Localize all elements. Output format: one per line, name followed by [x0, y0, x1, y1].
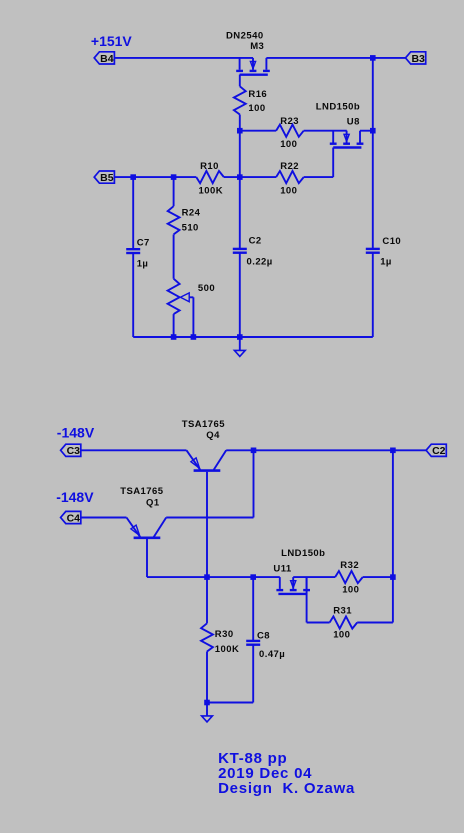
- net label -148V lower: [56, 489, 94, 505]
- comment title KT-88 pp: [218, 750, 287, 767]
- node top-right junction: [370, 55, 376, 61]
- resistor R31: [330, 616, 358, 628]
- node ground junction: [204, 700, 210, 706]
- svg-text:C7: C7: [137, 238, 150, 249]
- wire U8 source to right rail: [360, 130, 373, 132]
- svg-text:Design K. Ozawa: Design K. Ozawa: [218, 780, 355, 797]
- svg-text:0.47µ: 0.47µ: [259, 649, 285, 660]
- svg-text:C3: C3: [67, 445, 81, 457]
- potentiometer 500: [168, 279, 180, 314]
- wire R24 to pot: [173, 235, 175, 279]
- wire Q4-Q1 link: [253, 450, 255, 517]
- wire R32 to right rail: [363, 576, 393, 578]
- label DN2540: [226, 31, 264, 42]
- svg-text:C2: C2: [249, 236, 262, 247]
- svg-text:R31: R31: [333, 606, 352, 617]
- transistor Q4: [187, 450, 227, 470]
- node C8 rail junction: [250, 574, 256, 580]
- label Q4: [206, 430, 220, 441]
- svg-text:R16: R16: [248, 89, 267, 100]
- wire U11 gate down: [306, 578, 308, 623]
- wire M3 gate to R16: [239, 75, 241, 87]
- value 100 of R23: [280, 139, 297, 150]
- label C7: [137, 238, 150, 249]
- svg-text:C4: C4: [67, 512, 81, 524]
- value 0.22u of C2: [247, 256, 273, 267]
- resistor R24: [168, 206, 180, 234]
- port B5: [94, 171, 114, 184]
- wire U11 source to R32: [293, 576, 335, 578]
- label R32: [340, 560, 359, 571]
- value 0.47u of C8: [259, 649, 285, 660]
- port B3: [406, 52, 426, 65]
- wire pot bottom lead: [173, 314, 175, 337]
- value 100 of R22: [280, 186, 297, 197]
- svg-text:-148V: -148V: [56, 489, 94, 505]
- svg-text:M3: M3: [250, 41, 264, 52]
- value 100K of R10: [199, 186, 224, 197]
- ground lower section: [202, 716, 213, 722]
- svg-text:U11: U11: [273, 564, 292, 575]
- wire R16 to node: [239, 115, 241, 131]
- net label -148V upper: [57, 424, 95, 440]
- wire R24 top lead: [173, 177, 175, 206]
- svg-text:R22: R22: [280, 161, 299, 172]
- wire B5 to R10: [114, 176, 196, 178]
- node right rail top junction: [390, 448, 396, 454]
- svg-text:0.22µ: 0.22µ: [247, 256, 273, 267]
- node pot-bottom junction: [171, 334, 177, 340]
- port C2: [426, 444, 446, 457]
- ground top section: [234, 350, 245, 356]
- port C3: [61, 444, 81, 457]
- value 100K of R30: [215, 644, 240, 655]
- wire right rail lower: [392, 450, 394, 622]
- label R24: [182, 207, 201, 218]
- capacitor C2: [233, 249, 247, 253]
- label LND150b of U8: [316, 101, 360, 112]
- svg-text:100: 100: [248, 103, 265, 114]
- node wiper-bottom junction: [191, 334, 197, 340]
- port B4: [94, 52, 114, 65]
- node R16-R23 junction: [237, 128, 243, 134]
- value 1u of C7: [137, 259, 149, 270]
- svg-text:R24: R24: [182, 207, 201, 218]
- svg-text:Q1: Q1: [146, 498, 160, 509]
- resistor R23: [276, 125, 304, 137]
- wiper arrow of potentiometer: [180, 293, 189, 302]
- wire M3 source to B3: [266, 57, 405, 59]
- capacitor C10: [366, 249, 380, 253]
- svg-text:100K: 100K: [199, 186, 224, 197]
- svg-text:100: 100: [342, 585, 359, 596]
- svg-text:B3: B3: [411, 53, 425, 65]
- wire C3 to Q4 emitter: [81, 449, 187, 451]
- wire R23 to U8 drain: [304, 130, 347, 132]
- wire bottom rail: [133, 336, 373, 338]
- svg-text:C2: C2: [432, 445, 446, 457]
- svg-text:TSA1765: TSA1765: [182, 419, 226, 430]
- value 510 of R24: [182, 223, 199, 234]
- resistor R10: [196, 171, 224, 183]
- svg-text:Q4: Q4: [206, 430, 220, 441]
- wire C4 to Q1 emitter: [81, 517, 127, 519]
- label R23: [280, 116, 299, 127]
- svg-text:B5: B5: [100, 172, 114, 184]
- wire Q4 collector to C2 port: [226, 449, 426, 451]
- resistor R16: [234, 86, 246, 114]
- label LND150b of U11: [281, 548, 325, 559]
- svg-text:LND150b: LND150b: [281, 548, 325, 559]
- svg-text:C10: C10: [382, 236, 401, 247]
- svg-text:R23: R23: [280, 116, 299, 127]
- transistor Q1: [127, 518, 167, 538]
- node U8-rail junction: [370, 128, 376, 134]
- label TSA1765 of Q1: [120, 486, 164, 497]
- svg-text:U8: U8: [347, 116, 360, 127]
- wire U8 gate to R22: [304, 176, 334, 178]
- value 1u of C10: [380, 257, 392, 268]
- label M3: [250, 41, 264, 52]
- wire C7 to bottom rail: [132, 253, 134, 337]
- net label +151V: [91, 33, 133, 49]
- label R22: [280, 161, 299, 172]
- wire U8 gate down: [332, 148, 334, 178]
- label C8: [257, 630, 270, 641]
- node center junction: [237, 174, 243, 180]
- svg-text:100K: 100K: [215, 644, 240, 655]
- wire C8 drop: [252, 577, 254, 641]
- label U8: [347, 116, 360, 127]
- svg-text:100: 100: [280, 186, 297, 197]
- wire C7 drop: [132, 177, 134, 249]
- label Q1: [146, 498, 160, 509]
- op-amp U8 mosfet: [330, 131, 364, 148]
- label C10: [382, 236, 401, 247]
- wire B4 to M3 drain: [114, 57, 253, 59]
- svg-text:DN2540: DN2540: [226, 31, 264, 42]
- capacitor C7: [126, 249, 140, 253]
- value 100 of R16: [248, 103, 265, 114]
- wire gate to R31: [307, 622, 330, 624]
- value 500 of potentiometer: [198, 283, 215, 294]
- wire C8 bottom: [207, 645, 253, 703]
- resistor R32: [335, 571, 363, 583]
- resistor R22: [276, 171, 304, 183]
- op-amp U11 mosfet: [276, 577, 310, 594]
- transistor M3: [236, 58, 270, 75]
- capacitor C8: [246, 641, 260, 645]
- svg-text:+151V: +151V: [91, 33, 133, 49]
- wire R30 top lead: [206, 577, 208, 623]
- wire Q1 collector: [166, 517, 253, 519]
- node C2-bottom junction: [237, 334, 243, 340]
- svg-text:500: 500: [198, 283, 215, 294]
- label U11: [273, 564, 292, 575]
- comment designer: [218, 780, 355, 797]
- svg-text:LND150b: LND150b: [316, 101, 360, 112]
- label TSA1765 of Q4: [182, 419, 226, 430]
- svg-text:R10: R10: [200, 161, 219, 172]
- label R30: [215, 629, 234, 640]
- value 100 of R32: [342, 585, 359, 596]
- wire wiper: [189, 297, 193, 337]
- svg-text:1µ: 1µ: [380, 257, 392, 268]
- node C7 junction: [130, 174, 136, 180]
- wire C10 to bottom rail: [372, 253, 374, 337]
- wire R30 bottom lead: [206, 652, 208, 703]
- svg-text:-148V: -148V: [57, 424, 95, 440]
- node Q4-base rail junction: [204, 574, 210, 580]
- label R16: [248, 89, 267, 100]
- label R10: [200, 161, 219, 172]
- node R24 junction: [171, 174, 177, 180]
- label C2: [249, 236, 262, 247]
- svg-text:100: 100: [280, 139, 297, 150]
- node R32 rail junction: [390, 574, 396, 580]
- wire center rail: [239, 131, 241, 249]
- svg-text:100: 100: [333, 630, 350, 641]
- resistor R30: [201, 623, 213, 651]
- port C4: [61, 511, 81, 524]
- wire right rail down to C10: [372, 58, 374, 249]
- svg-text:B4: B4: [100, 53, 114, 65]
- svg-text:1µ: 1µ: [137, 259, 149, 270]
- svg-text:R30: R30: [215, 629, 234, 640]
- wire Q4 base down: [206, 472, 208, 577]
- node Q4 collector junction: [251, 448, 257, 454]
- comment date: [218, 765, 312, 782]
- svg-text:510: 510: [182, 223, 199, 234]
- wire Q1 base down: [146, 539, 148, 577]
- value 100 of R31: [333, 630, 350, 641]
- label R31: [333, 606, 352, 617]
- wire C2 to bottom rail: [239, 253, 241, 337]
- wire ground stub lower: [206, 703, 208, 716]
- wire lower rail: [147, 576, 280, 578]
- svg-text:C8: C8: [257, 630, 270, 641]
- wire node to R23: [240, 130, 276, 132]
- svg-text:R32: R32: [340, 560, 359, 571]
- svg-text:TSA1765: TSA1765: [120, 486, 164, 497]
- wire R31 to right rail: [357, 622, 393, 624]
- wire ground stub: [239, 337, 241, 350]
- wire R10 to R22: [224, 176, 276, 178]
